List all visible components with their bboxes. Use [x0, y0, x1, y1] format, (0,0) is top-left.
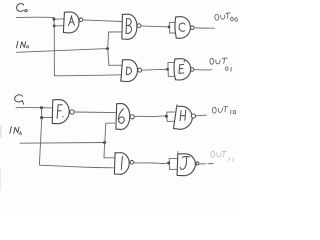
label F: [57, 105, 64, 119]
label E: [179, 60, 185, 73]
gate J top-left overshoot tick: [177, 152, 179, 155]
bubble E: [191, 68, 194, 71]
wire F output to G upper input: [74, 111, 115, 114]
wire C1 input: [16, 107, 52, 109]
input label C0: [17, 4, 28, 12]
bubble I: [130, 161, 134, 165]
wire bracket to J inputs: [169, 158, 177, 169]
gate H top-left overshoot tick: [176, 105, 178, 108]
wire IN1 branch down to I upper input: [104, 143, 114, 158]
junction node IN0: [106, 47, 109, 50]
wire D output to E input: [142, 68, 168, 71]
nand gate G: [116, 104, 130, 130]
nand gate F: [52, 100, 69, 124]
bubble J: [196, 162, 199, 165]
wire C1 vertical down then right to gate I lower input: [39, 108, 113, 168]
input label C1: [15, 95, 24, 104]
label J: [180, 156, 189, 169]
wire G output to H input: [134, 115, 166, 118]
wire stub to A input 2: [54, 25, 63, 27]
junction node J input: [167, 162, 170, 165]
input label IN0: [16, 41, 28, 47]
wire J output: [200, 163, 213, 165]
junction node H input: [165, 115, 168, 118]
input label IN1: [10, 127, 22, 135]
wire IN0 branch down to D upper input: [108, 49, 122, 66]
wire bracket to C inputs: [169, 22, 175, 33]
scan smudge left edge: [0, 125, 2, 138]
wire E output: [194, 69, 212, 71]
wire I output to J input: [134, 162, 169, 165]
wire C output: [194, 27, 214, 29]
bubble A: [79, 18, 83, 22]
output label OUT10: [212, 106, 236, 116]
wire bracket to E inputs: [168, 62, 175, 76]
output label OUT00: [214, 12, 237, 23]
bubble D: [138, 68, 142, 72]
label A: [68, 16, 74, 26]
wire IN0 branch up to B lower input: [108, 32, 122, 49]
bubble C: [191, 26, 195, 30]
wire C0 vertical down then right to gate D lower input: [54, 17, 121, 75]
wire A output to B input: [83, 20, 122, 22]
nand gate D: [121, 60, 138, 82]
bubble F: [70, 110, 74, 114]
label G: [118, 109, 124, 123]
label B: [126, 19, 132, 34]
wire C0 input: [17, 16, 55, 18]
wire B output to C input: [141, 26, 169, 27]
nand gate H: [174, 106, 193, 129]
nand gate I: [114, 153, 129, 175]
wire H output: [196, 114, 207, 117]
wire bracket to H inputs: [167, 112, 175, 121]
junction node C1 / F upper: [40, 106, 43, 109]
output label OUT01: [210, 58, 232, 71]
bubble G: [130, 115, 134, 119]
junction node E input: [166, 68, 169, 71]
nand gate C: [175, 17, 190, 39]
junction node C0 / A upper: [53, 18, 56, 21]
wire IN1 input: [20, 142, 104, 145]
label I: [121, 156, 122, 169]
label D: [126, 67, 131, 75]
label C: [179, 23, 185, 31]
bubble B: [137, 24, 141, 28]
junction node IN1: [103, 141, 106, 144]
junction node C input: [168, 26, 171, 29]
nand gate J: [177, 154, 195, 176]
wire stub to A input 1: [54, 18, 64, 20]
label H: [180, 110, 186, 120]
bubble H: [191, 114, 195, 118]
junction node C0 / A lower: [53, 25, 56, 28]
wire IN0 input: [17, 49, 108, 53]
wire IN1 branch up to G lower input: [105, 123, 115, 142]
wire stub to F input 2: [42, 116, 53, 118]
nand gate B: [122, 14, 137, 39]
nand gate E: [174, 59, 191, 80]
output label OUT11: [211, 151, 234, 161]
junction node C1 / F lower: [40, 116, 43, 119]
nand gate A: [63, 12, 79, 33]
